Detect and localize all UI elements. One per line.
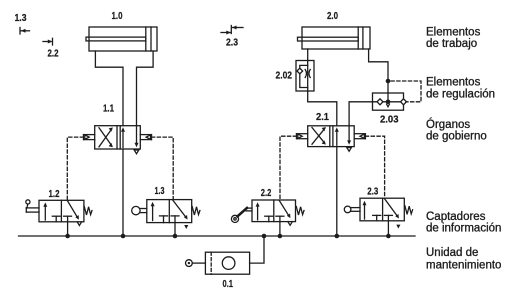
wire valve 2.1 right top port to flow control 2.03	[349, 102, 372, 126]
wire maintenance unit to manifold	[250, 236, 264, 263]
svg-text:Unidad de: Unidad de	[426, 247, 478, 259]
dashed leader from junction to regulation label	[391, 81, 421, 102]
valve 2.1	[297, 112, 366, 151]
valve 1.2	[26, 189, 92, 226]
label Elementos de trabajo	[426, 27, 481, 51]
label Unidad de mantenimiento	[426, 247, 501, 272]
wire cylinder 1.0 right port to valve 1.1	[137, 51, 154, 126]
svg-text:de información: de información	[426, 223, 501, 235]
svg-text:1.3: 1.3	[15, 13, 27, 24]
position marker 2.2	[43, 38, 59, 59]
junction 0.1/manifold	[262, 234, 267, 239]
wire valve 1.2 supply to manifold	[67, 216, 69, 236]
junction 2.3/manifold	[386, 234, 391, 239]
junction node above 2.03	[386, 79, 391, 84]
svg-text:1.1: 1.1	[103, 104, 114, 115]
valve 2.3	[344, 187, 412, 229]
svg-text:2.1: 2.1	[316, 112, 329, 123]
air supply manifold	[19, 235, 416, 237]
valve 2.2	[231, 188, 304, 225]
svg-text:0.1: 0.1	[223, 279, 234, 290]
position marker 1.3	[15, 13, 30, 34]
wire valve 2.3 supply to manifold	[387, 215, 389, 236]
wire valve 2.1 supply down to manifold	[336, 147, 338, 236]
label Órganos de gobierno	[426, 118, 487, 143]
svg-text:Elementos: Elementos	[426, 27, 481, 39]
valve 1.3	[132, 186, 200, 229]
cylinder 2.0	[298, 11, 371, 49]
svg-text:Elementos: Elementos	[426, 77, 481, 89]
pilot line valve 1.2 output to valve 1.1 left pilot	[67, 137, 83, 200]
svg-text:1.3: 1.3	[155, 186, 165, 197]
junction 1.2/manifold	[65, 234, 70, 239]
junction 2.1/manifold	[335, 234, 340, 239]
wire cylinder 2.0 right port down to flow control 2.03	[369, 49, 388, 93]
svg-text:2.02: 2.02	[276, 71, 293, 82]
svg-text:mantenimiento: mantenimiento	[426, 260, 501, 272]
cylinder 1.0	[86, 11, 157, 51]
svg-text:de gobierno: de gobierno	[426, 131, 487, 143]
pilot line valve 1.3 output to valve 1.1 right pilot	[152, 137, 174, 199]
position marker 2.3	[221, 26, 243, 49]
svg-text:2.3: 2.3	[226, 38, 238, 49]
junction 1.3/manifold	[173, 234, 178, 239]
label Captadores de información	[426, 211, 501, 235]
svg-text:de trabajo: de trabajo	[426, 38, 477, 50]
svg-text:2.03: 2.03	[380, 115, 399, 126]
svg-text:1.0: 1.0	[112, 11, 123, 22]
svg-text:Órganos: Órganos	[426, 118, 470, 131]
maintenance unit 0.1	[186, 252, 250, 290]
svg-text:1.2: 1.2	[49, 189, 60, 200]
wire valve 2.2 supply to manifold	[279, 216, 281, 236]
pilot line valve 2.2 output to valve 2.1 left pilot	[280, 136, 297, 200]
label Elementos de regulación	[426, 77, 495, 101]
svg-text:de regulación: de regulación	[426, 89, 495, 101]
flow control 2.02	[276, 61, 315, 92]
wire cylinder 2.0 left port into flow control 2.02	[307, 49, 309, 61]
svg-text:2.3: 2.3	[367, 187, 378, 198]
wire flow control 2.02 to valve 2.1 left top port	[308, 91, 337, 126]
wire valve 1.3 supply to manifold	[174, 216, 176, 236]
svg-text:2.0: 2.0	[327, 11, 338, 22]
valve 1.1	[84, 104, 152, 154]
junction 1.1/manifold	[121, 234, 126, 239]
pilot line valve 2.3 output to valve 2.1 right pilot	[365, 136, 384, 198]
svg-text:2.2: 2.2	[261, 188, 272, 199]
svg-text:Captadores: Captadores	[426, 211, 486, 223]
wire cylinder 1.0 left port to valve 1.1	[95, 51, 123, 126]
junction 2.2/manifold	[278, 234, 283, 239]
flow control 2.03	[373, 93, 407, 126]
wire valve 1.1 supply down to manifold	[122, 149, 124, 236]
svg-text:2.2: 2.2	[48, 49, 59, 60]
